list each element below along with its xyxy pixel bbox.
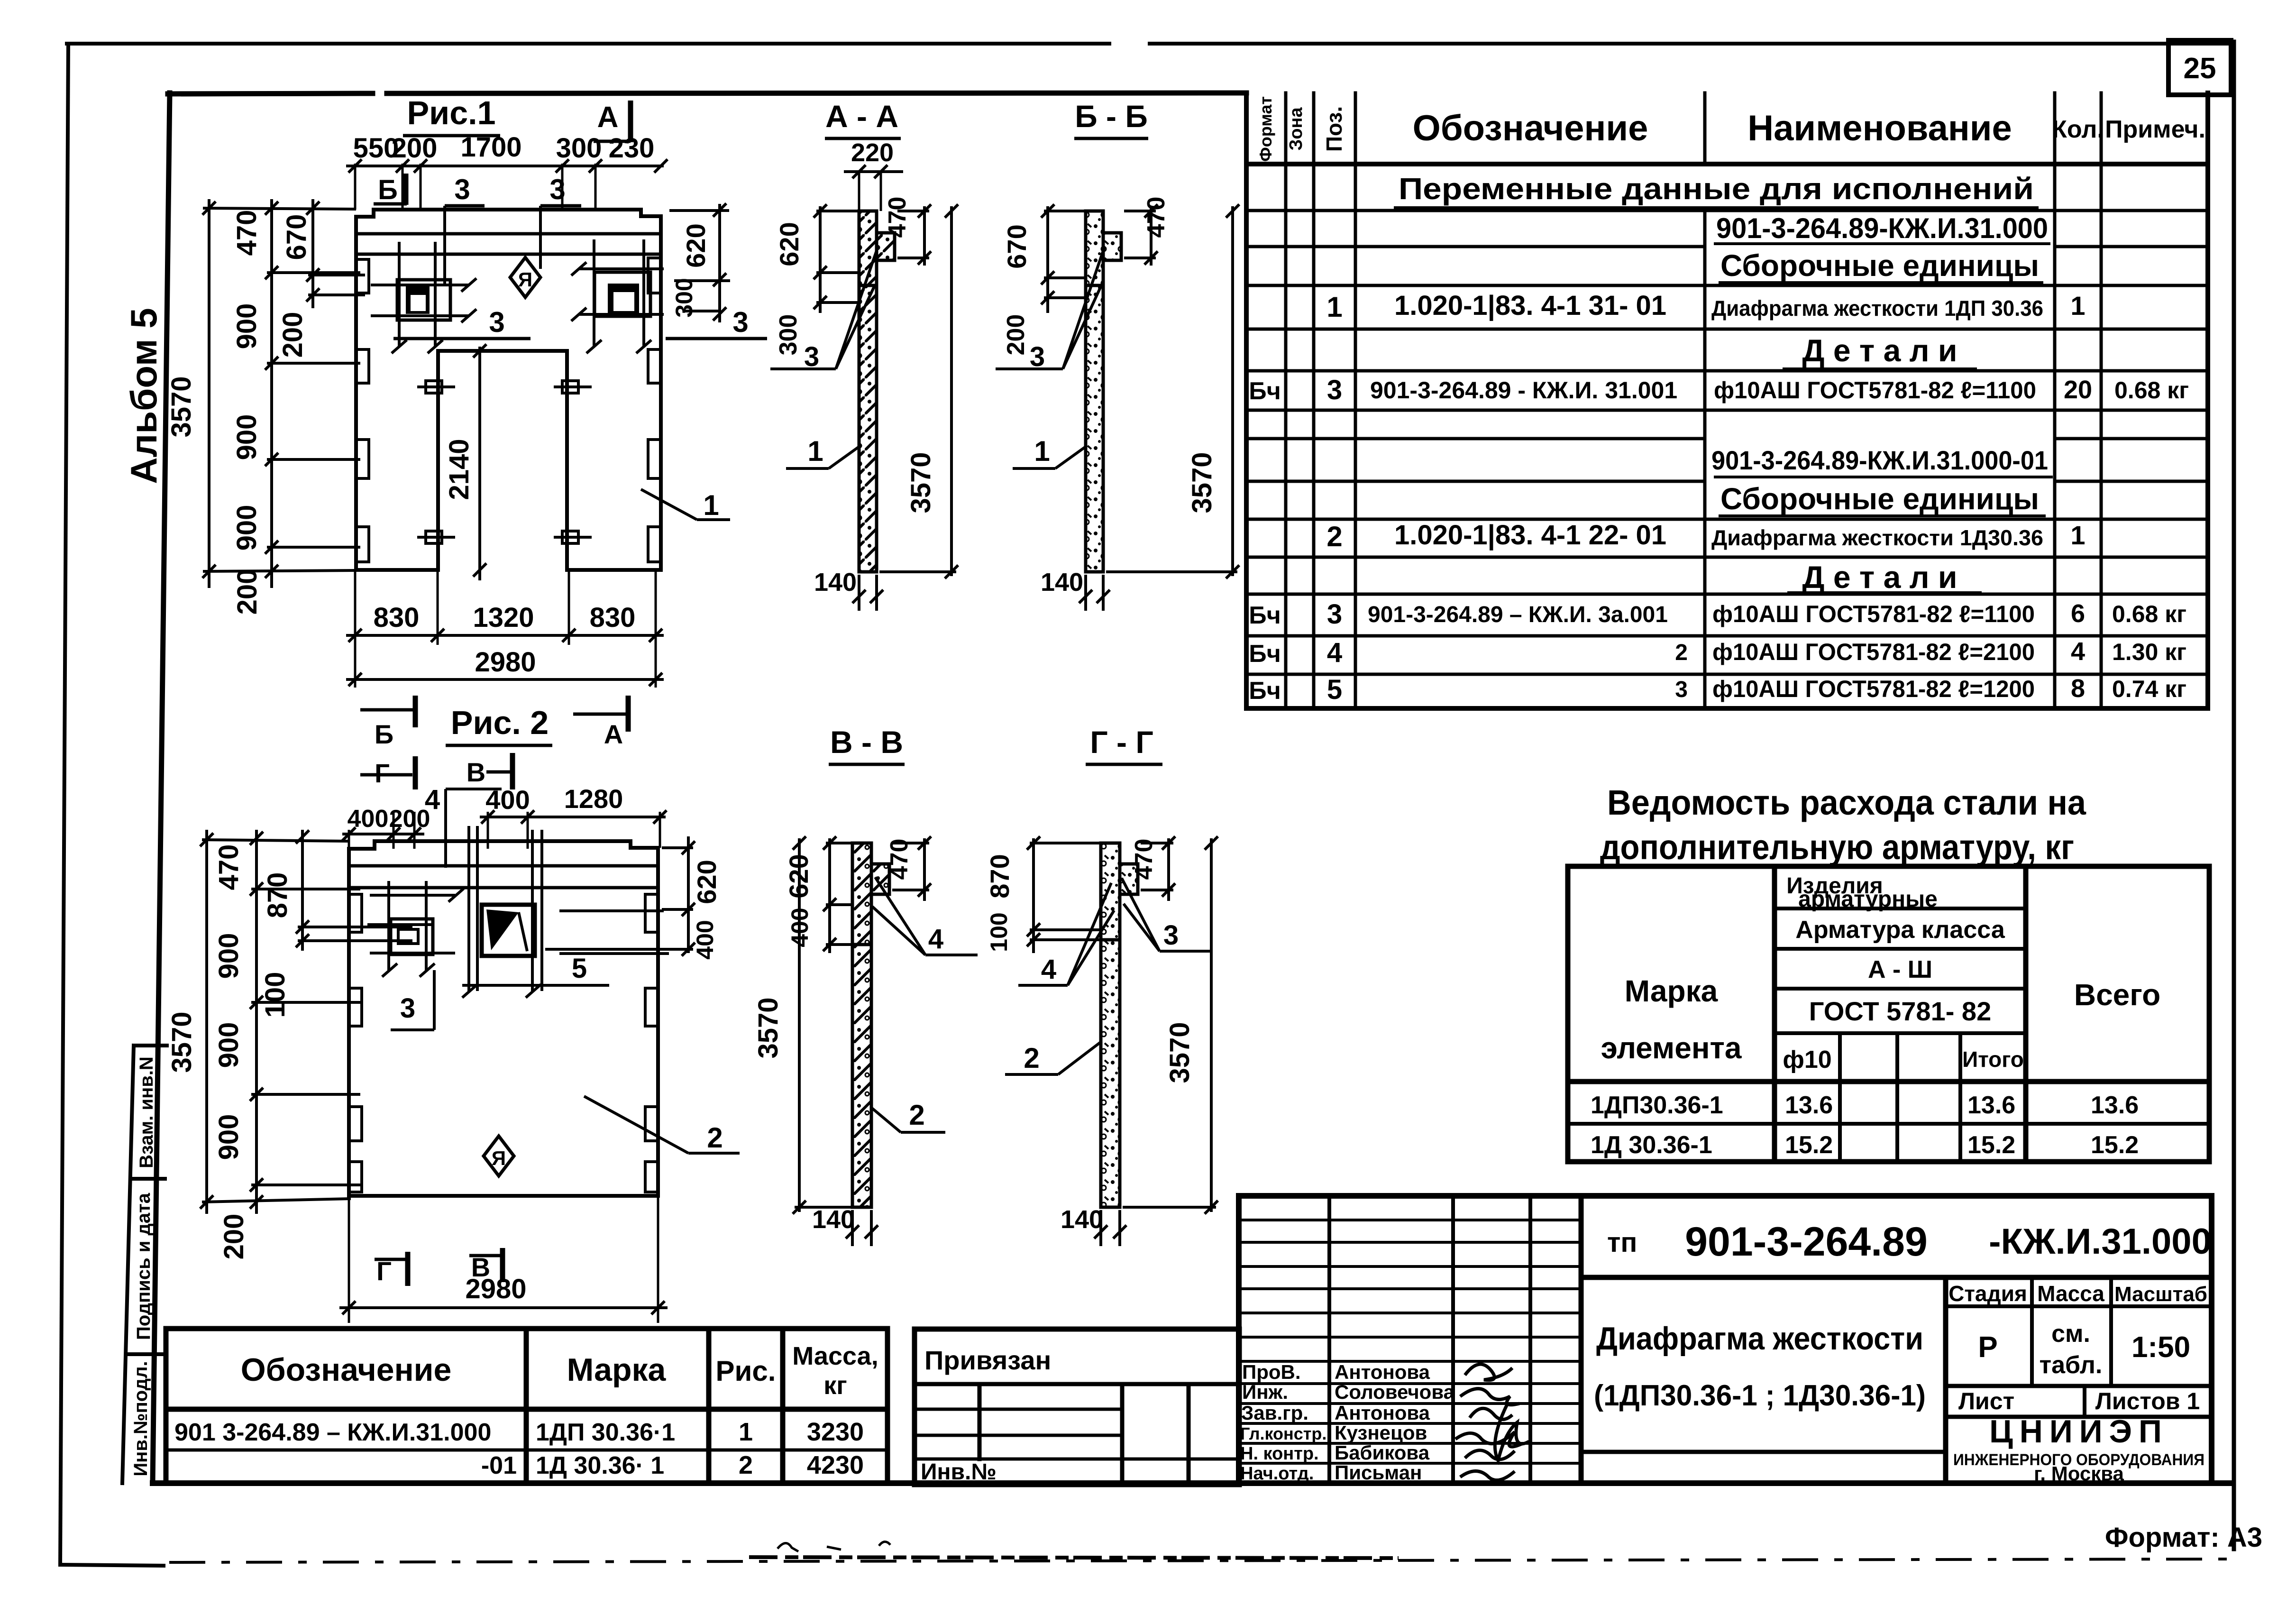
svg-text:Лист: Лист xyxy=(1958,1388,2014,1414)
svg-text:Д е т а л и: Д е т а л и xyxy=(1802,333,1958,368)
left dimension chains Рис.1 xyxy=(203,199,365,588)
svg-text:140: 140 xyxy=(814,568,857,596)
svg-text:3230: 3230 xyxy=(807,1418,864,1446)
svg-text:ф10АШ ГОСТ5781-82 ℓ=1100: ф10АШ ГОСТ5781-82 ℓ=1100 xyxy=(1714,377,2036,404)
svg-text:Гл.констр.: Гл.констр. xyxy=(1240,1424,1326,1443)
svg-text:100: 100 xyxy=(260,972,291,1018)
svg-text:Я: Я xyxy=(492,1147,506,1169)
svg-text:-КЖ.И.31.000: -КЖ.И.31.000 xyxy=(1989,1221,2212,1262)
Г-Г right 3570 dim xyxy=(1123,836,1218,1214)
svg-text:15.2: 15.2 xyxy=(1967,1131,2015,1159)
svg-text:1.020-1|83. 4-1 31- 01: 1.020-1|83. 4-1 31- 01 xyxy=(1394,290,1666,321)
svg-text:Б - Б: Б - Б xyxy=(1075,99,1148,134)
svg-text:1: 1 xyxy=(2070,520,2085,550)
svg-text:1ДП30.36-1: 1ДП30.36-1 xyxy=(1591,1092,1723,1119)
svg-text:Нач.отд.: Нач.отд. xyxy=(1240,1464,1314,1484)
svg-text:0.68 кг: 0.68 кг xyxy=(2114,377,2189,404)
svg-text:Обозначение: Обозначение xyxy=(1413,108,1648,148)
panel 1Д30.36-1 plan outline xyxy=(349,841,658,1196)
top dimension chain 400/200 (Рис.2) xyxy=(342,812,424,849)
panel 1ДП30.36-1 plan outline xyxy=(356,210,661,570)
panel top band lines (Рис.2) xyxy=(349,864,658,868)
Б-Б corbel step xyxy=(1103,233,1121,260)
sheet number box 25 xyxy=(2168,40,2231,95)
svg-text:300: 300 xyxy=(775,314,802,356)
embed plate right window xyxy=(595,272,650,316)
svg-text:200: 200 xyxy=(1002,314,1030,356)
svg-text:Диафрагма жесткости 1ДП 30.36: Диафрагма жесткости 1ДП 30.36 xyxy=(1711,296,2043,321)
svg-text:Марка: Марка xyxy=(1625,974,1718,1008)
right dimension chain 620/300 (Рис.1) xyxy=(669,203,730,322)
svg-text:3: 3 xyxy=(1327,375,1342,405)
opening dimension 2140 xyxy=(478,347,481,580)
svg-text:1320: 1320 xyxy=(473,602,534,633)
svg-text:Рис. 2: Рис. 2 xyxy=(451,704,549,741)
svg-text:3: 3 xyxy=(1327,599,1342,630)
svg-text:Масса: Масса xyxy=(2037,1281,2104,1306)
svg-text:620: 620 xyxy=(681,223,711,267)
inner thick frame xyxy=(153,93,2231,1483)
svg-text:Инж.: Инж. xyxy=(1242,1381,1288,1403)
svg-text:Ведомость расхода стали на: Ведомость расхода стали на xyxy=(1607,783,2086,822)
svg-text:15.2: 15.2 xyxy=(2091,1131,2139,1159)
svg-text:620: 620 xyxy=(774,222,804,266)
svg-text:901-3-264.89 - КЖ.И. 31.00: 901-3-264.89 - КЖ.И. 31.001 xyxy=(1370,377,1677,404)
left vertical strip (Взам.инв.N / Подпись и дата / Инв.№подл.) xyxy=(122,1046,167,1483)
svg-text:1: 1 xyxy=(807,435,823,467)
svg-text:1: 1 xyxy=(2070,291,2085,321)
svg-text:140: 140 xyxy=(1061,1205,1103,1234)
edge plates Рис.1 right xyxy=(648,258,661,562)
svg-text:Соловечова: Соловечова xyxy=(1335,1381,1455,1403)
svg-text:3: 3 xyxy=(454,174,470,205)
svg-text:830: 830 xyxy=(374,602,420,633)
svg-text:901-3-264.89 – КЖ.И. 3а.00: 901-3-264.89 – КЖ.И. 3а.001 xyxy=(1368,602,1668,627)
svg-text:5: 5 xyxy=(572,953,587,984)
svg-text:3: 3 xyxy=(1675,677,1688,702)
svg-text:830: 830 xyxy=(590,602,636,633)
svg-text:140: 140 xyxy=(812,1205,855,1234)
svg-text:900: 900 xyxy=(231,303,262,349)
Г-Г corbel step xyxy=(1120,864,1138,894)
svg-text:Стадия: Стадия xyxy=(1948,1281,2027,1306)
svg-text:13.6: 13.6 xyxy=(1785,1092,1833,1119)
svg-text:Сборочные единицы: Сборочные единицы xyxy=(1720,248,2039,283)
embed plate left window xyxy=(397,280,450,320)
svg-text:200: 200 xyxy=(277,312,308,358)
svg-text:Бч: Бч xyxy=(1249,602,1281,629)
bottom pencil scribble over dashed edge xyxy=(749,1541,1399,1558)
panel top band lines xyxy=(356,232,661,236)
В-В column body xyxy=(852,843,871,1207)
specification table grid xyxy=(1246,93,2208,708)
svg-text:140: 140 xyxy=(1041,568,1083,596)
svg-text:Зав.гр.: Зав.гр. xyxy=(1241,1402,1308,1424)
svg-text:6: 6 xyxy=(2071,599,2085,628)
А-А right 3570 dim xyxy=(879,204,958,578)
svg-text:3: 3 xyxy=(1163,920,1179,951)
svg-text:(1ДП30.36-1 ; 1Д30.36-1): (1ДП30.36-1 ; 1Д30.36-1) xyxy=(1594,1379,1926,1412)
svg-text:Примеч.: Примеч. xyxy=(2105,116,2205,143)
svg-text:Арматура класса: Арматура класса xyxy=(1795,916,2005,944)
svg-text:4230: 4230 xyxy=(807,1451,864,1479)
А-А corbel step xyxy=(877,233,895,260)
svg-text:1.30 кг: 1.30 кг xyxy=(2112,639,2186,665)
svg-text:3: 3 xyxy=(400,993,415,1024)
svg-text:470: 470 xyxy=(1143,197,1170,238)
svg-text:2: 2 xyxy=(909,1099,924,1131)
Б-Б joint line xyxy=(1086,284,1103,287)
svg-text:400: 400 xyxy=(485,785,530,815)
svg-text:1Д 30.36-1: 1Д 30.36-1 xyxy=(1591,1131,1712,1159)
svg-text:Я: Я xyxy=(518,268,532,291)
svg-text:470: 470 xyxy=(213,844,244,890)
left dimension chains Рис.2 xyxy=(202,830,412,1214)
svg-text:25: 25 xyxy=(2184,52,2216,85)
svg-text:Бч: Бч xyxy=(1249,640,1281,668)
svg-text:300: 300 xyxy=(671,278,697,317)
svg-text:ГОСТ 5781- 82: ГОСТ 5781- 82 xyxy=(1809,996,1991,1026)
svg-text:ЦНИИЭП: ЦНИИЭП xyxy=(1989,1413,2168,1450)
svg-text:арматурные: арматурные xyxy=(1798,887,1938,912)
svg-text:670: 670 xyxy=(1002,224,1032,268)
svg-text:15.2: 15.2 xyxy=(1785,1131,1833,1159)
svg-text:Бабикова: Бабикова xyxy=(1335,1441,1430,1464)
Б-Б left chain 670/200 xyxy=(1041,204,1086,313)
Ведомость table texts xyxy=(1591,873,2160,1159)
svg-text:1: 1 xyxy=(1326,291,1342,323)
svg-text:400: 400 xyxy=(692,920,718,959)
svg-text:4: 4 xyxy=(928,924,943,954)
svg-text:2: 2 xyxy=(707,1122,723,1154)
svg-text:2: 2 xyxy=(1326,521,1342,552)
anchor square (black) right xyxy=(608,284,639,314)
svg-text:В: В xyxy=(467,757,485,787)
svg-text:А: А xyxy=(597,101,619,134)
svg-text:1: 1 xyxy=(1034,435,1050,467)
svg-text:Взам. инв.N: Взам. инв.N xyxy=(136,1056,157,1168)
svg-text:870: 870 xyxy=(985,854,1015,898)
svg-text:3570: 3570 xyxy=(1187,452,1217,513)
svg-text:3570: 3570 xyxy=(753,997,784,1058)
svg-text:Альбом 5: Альбом 5 xyxy=(123,308,165,484)
svg-text:ПроВ.: ПроВ. xyxy=(1242,1361,1301,1383)
svg-text:620: 620 xyxy=(692,860,722,904)
svg-text:4: 4 xyxy=(1041,954,1056,985)
svg-text:900: 900 xyxy=(213,1022,244,1068)
svg-text:Антонова: Антонова xyxy=(1335,1402,1430,1424)
svg-text:3570: 3570 xyxy=(906,452,936,513)
svg-text:8: 8 xyxy=(2071,674,2085,703)
svg-text:200: 200 xyxy=(219,1214,249,1260)
svg-text:Б: Б xyxy=(375,719,393,749)
В-В corbel step xyxy=(871,864,889,894)
svg-text:см.: см. xyxy=(2051,1320,2090,1348)
svg-text:А - А: А - А xyxy=(825,99,898,134)
edge plates Рис.2 left xyxy=(349,894,362,1192)
svg-text:Инв.№подл.: Инв.№подл. xyxy=(130,1361,151,1476)
svg-text:1.020-1|83. 4-1 22- 01: 1.020-1|83. 4-1 22- 01 xyxy=(1394,520,1666,551)
Б-Б column body xyxy=(1086,211,1103,572)
А-А left chain 620/300 xyxy=(814,204,859,313)
svg-text:ф10АШ ГОСТ5781-82 ℓ=1100: ф10АШ ГОСТ5781-82 ℓ=1100 xyxy=(1712,601,2035,627)
Б-Б right 470 dim xyxy=(1124,204,1158,266)
svg-text:Р: Р xyxy=(1978,1331,1997,1364)
В-В left 3570 dim xyxy=(793,836,852,1214)
svg-text:Рис.1: Рис.1 xyxy=(407,94,495,131)
svg-text:Обозначение: Обозначение xyxy=(241,1352,452,1388)
svg-text:0.74 кг: 0.74 кг xyxy=(2112,676,2186,702)
Ведомость table grid xyxy=(1568,866,2209,1162)
svg-text:-01: -01 xyxy=(481,1452,517,1479)
svg-text:Листов 1: Листов 1 xyxy=(2095,1388,2200,1414)
svg-text:В - В: В - В xyxy=(830,725,903,760)
svg-text:3570: 3570 xyxy=(1164,1022,1195,1083)
svg-text:Масштаб: Масштаб xyxy=(2114,1283,2207,1306)
svg-text:г. Москва: г. Москва xyxy=(2034,1462,2124,1485)
svg-text:1ДП 30.36·1: 1ДП 30.36·1 xyxy=(536,1419,675,1446)
svg-text:0.68 кг: 0.68 кг xyxy=(2112,601,2186,627)
svg-text:5: 5 xyxy=(1327,674,1342,705)
svg-text:А: А xyxy=(604,719,623,749)
signatures scribble xyxy=(1455,1364,1529,1480)
svg-text:2: 2 xyxy=(1675,640,1688,665)
svg-text:Г - Г: Г - Г xyxy=(1090,725,1153,760)
svg-text:400: 400 xyxy=(348,805,389,833)
svg-text:470: 470 xyxy=(1130,839,1158,880)
В-В right 470 dim xyxy=(892,836,931,901)
svg-text:Масса,: Масса, xyxy=(792,1342,878,1370)
svg-text:табл.: табл. xyxy=(2040,1351,2103,1379)
svg-text:Письман: Письман xyxy=(1335,1461,1422,1484)
svg-text:1: 1 xyxy=(739,1418,753,1446)
svg-text:ф10АШ ГОСТ5781-82 ℓ=2100: ф10АШ ГОСТ5781-82 ℓ=2100 xyxy=(1712,639,2035,665)
svg-text:Инв.№: Инв.№ xyxy=(921,1459,997,1485)
svg-text:200: 200 xyxy=(232,569,263,615)
top dimension chain (550 200 1700 300 230) xyxy=(346,164,664,210)
svg-text:Сборочные единицы: Сборочные единицы xyxy=(1720,482,2039,516)
svg-text:Рис.: Рис. xyxy=(716,1355,776,1387)
svg-text:Формат: А3: Формат: А3 xyxy=(2105,1522,2262,1553)
diamond mark Я (Рис.1) xyxy=(510,257,540,297)
svg-text:Всего: Всего xyxy=(2074,978,2160,1012)
svg-text:Итого: Итого xyxy=(1962,1047,2024,1072)
bottom dimension 2980 (Рис.2) xyxy=(339,1196,668,1323)
svg-text:300: 300 xyxy=(556,133,602,164)
svg-text:Кол.: Кол. xyxy=(2052,116,2104,143)
svg-text:3: 3 xyxy=(489,306,504,338)
svg-text:901-3-264.89-КЖ.И.31.000-01: 901-3-264.89-КЖ.И.31.000-01 xyxy=(1711,445,2048,475)
svg-text:3570: 3570 xyxy=(166,1011,197,1073)
svg-text:2980: 2980 xyxy=(475,647,536,678)
svg-text:230: 230 xyxy=(609,133,655,164)
svg-text:Переменные данные для испол: Переменные данные для исполнений xyxy=(1399,172,2034,206)
svg-text:Зона: Зона xyxy=(1286,107,1306,151)
title block: stage/mass/scale xyxy=(1948,1281,2207,1485)
Г-Г joint line xyxy=(1101,938,1120,942)
svg-text:кг: кг xyxy=(823,1371,847,1400)
svg-text:ф10АШ ГОСТ5781-82 ℓ=1200: ф10АШ ГОСТ5781-82 ℓ=1200 xyxy=(1712,676,2035,702)
svg-text:470: 470 xyxy=(884,197,911,238)
svg-text:Диафрагма жесткости: Диафрагма жесткости xyxy=(1596,1321,1923,1357)
svg-text:2140: 2140 xyxy=(444,439,475,500)
svg-text:900: 900 xyxy=(231,505,262,551)
А-А joint line xyxy=(859,284,877,287)
svg-text:Подпись и дата: Подпись и дата xyxy=(133,1193,154,1340)
diamond mark Я (Рис.2) xyxy=(484,1136,514,1176)
svg-text:470: 470 xyxy=(231,210,262,256)
svg-text:3570: 3570 xyxy=(166,376,197,437)
top dimension chain 400/1280 (Рис.2) xyxy=(480,810,667,849)
svg-text:Формат: Формат xyxy=(1256,96,1275,162)
svg-text:ф10: ф10 xyxy=(1783,1046,1831,1073)
Г-Г right 470 dim xyxy=(1141,836,1175,901)
svg-text:200: 200 xyxy=(392,133,438,164)
svg-text:470: 470 xyxy=(886,839,913,880)
anchor square (black) left xyxy=(406,286,430,314)
Б-Б right 3570 dim xyxy=(1106,204,1239,578)
edge plates Рис.1 left xyxy=(356,259,369,562)
svg-text:900: 900 xyxy=(231,414,262,460)
svg-text:дополнительную арматуру, кг: дополнительную арматуру, кг xyxy=(1600,827,2074,867)
bottom dimension chains Рис.1 xyxy=(346,570,664,688)
svg-text:тп: тп xyxy=(1607,1227,1637,1258)
svg-text:4: 4 xyxy=(1327,637,1342,668)
svg-text:1700: 1700 xyxy=(460,132,521,163)
svg-text:901-3-264.89-КЖ.И.31.000: 901-3-264.89-КЖ.И.31.000 xyxy=(1716,212,2048,244)
svg-text:100: 100 xyxy=(986,912,1012,952)
opening leg plates xyxy=(417,381,592,543)
svg-text:900: 900 xyxy=(213,933,244,979)
svg-text:1280: 1280 xyxy=(564,784,623,814)
svg-text:20: 20 xyxy=(2064,376,2092,404)
svg-text:Марка: Марка xyxy=(567,1352,667,1388)
svg-text:Диафрагма жесткости 1Д30.36: Диафрагма жесткости 1Д30.36 xyxy=(1711,525,2043,550)
svg-text:Б: Б xyxy=(378,174,398,205)
svg-text:Привязан: Привязан xyxy=(924,1345,1051,1375)
svg-text:901 3-264.89 – КЖ.И.31.000: 901 3-264.89 – КЖ.И.31.000 xyxy=(174,1419,491,1446)
svg-text:900: 900 xyxy=(213,1114,244,1160)
svg-text:Бч: Бч xyxy=(1249,377,1281,405)
svg-text:13.6: 13.6 xyxy=(1967,1092,2015,1119)
rebar lines Рис.2 xyxy=(367,826,669,998)
right dim 620/400 (Рис.2) xyxy=(545,836,695,956)
svg-text:Кузнецов: Кузнецов xyxy=(1335,1422,1427,1444)
В-В left chain 620/400 xyxy=(823,836,852,953)
big anchor square right (Рис.2) xyxy=(482,905,535,956)
svg-text:220: 220 xyxy=(851,138,894,167)
svg-text:Поз.: Поз. xyxy=(1322,106,1346,152)
В-В joint line xyxy=(852,943,871,946)
svg-text:4: 4 xyxy=(2071,637,2085,666)
svg-text:Антонова: Антонова xyxy=(1335,1361,1430,1383)
rebar cross lines right xyxy=(571,239,664,353)
svg-text:13.6: 13.6 xyxy=(2091,1092,2139,1119)
pos label 1 (Рис.1) with leader xyxy=(641,489,697,520)
svg-text:Бч: Бч xyxy=(1249,677,1281,705)
Г-Г left chain 870/100 xyxy=(1027,836,1101,953)
svg-text:1Д 30.36· 1: 1Д 30.36· 1 xyxy=(536,1452,664,1479)
svg-text:3: 3 xyxy=(732,306,748,338)
title block signature labels xyxy=(1240,1361,1455,1484)
А-А right 470 dim xyxy=(897,204,931,266)
pos label 2 (Рис.2) with leader xyxy=(584,1096,688,1153)
svg-text:870: 870 xyxy=(262,872,293,918)
rebar cross lines left xyxy=(371,242,476,353)
svg-text:элемента: элемента xyxy=(1601,1031,1742,1065)
spec table header texts xyxy=(1256,96,2205,162)
Г-Г column body xyxy=(1101,843,1120,1207)
svg-text:901-3-264.89: 901-3-264.89 xyxy=(1685,1219,1928,1265)
small anchor window left (Рис.2) xyxy=(391,919,433,954)
svg-text:Н. контр.: Н. контр. xyxy=(1240,1444,1319,1464)
svg-text:А - Ш: А - Ш xyxy=(1868,956,1932,983)
svg-text:2: 2 xyxy=(1024,1042,1039,1074)
svg-text:1:50: 1:50 xyxy=(2131,1331,2190,1364)
svg-text:Наименование: Наименование xyxy=(1747,108,2012,148)
А-А column body xyxy=(859,211,877,572)
svg-text:1: 1 xyxy=(703,489,719,521)
svg-text:2: 2 xyxy=(739,1451,753,1479)
svg-text:Д е т а л и: Д е т а л и xyxy=(1802,560,1958,595)
svg-text:200: 200 xyxy=(389,805,430,833)
svg-text:670: 670 xyxy=(281,214,312,260)
edge plates Рис.2 right xyxy=(645,894,658,1192)
